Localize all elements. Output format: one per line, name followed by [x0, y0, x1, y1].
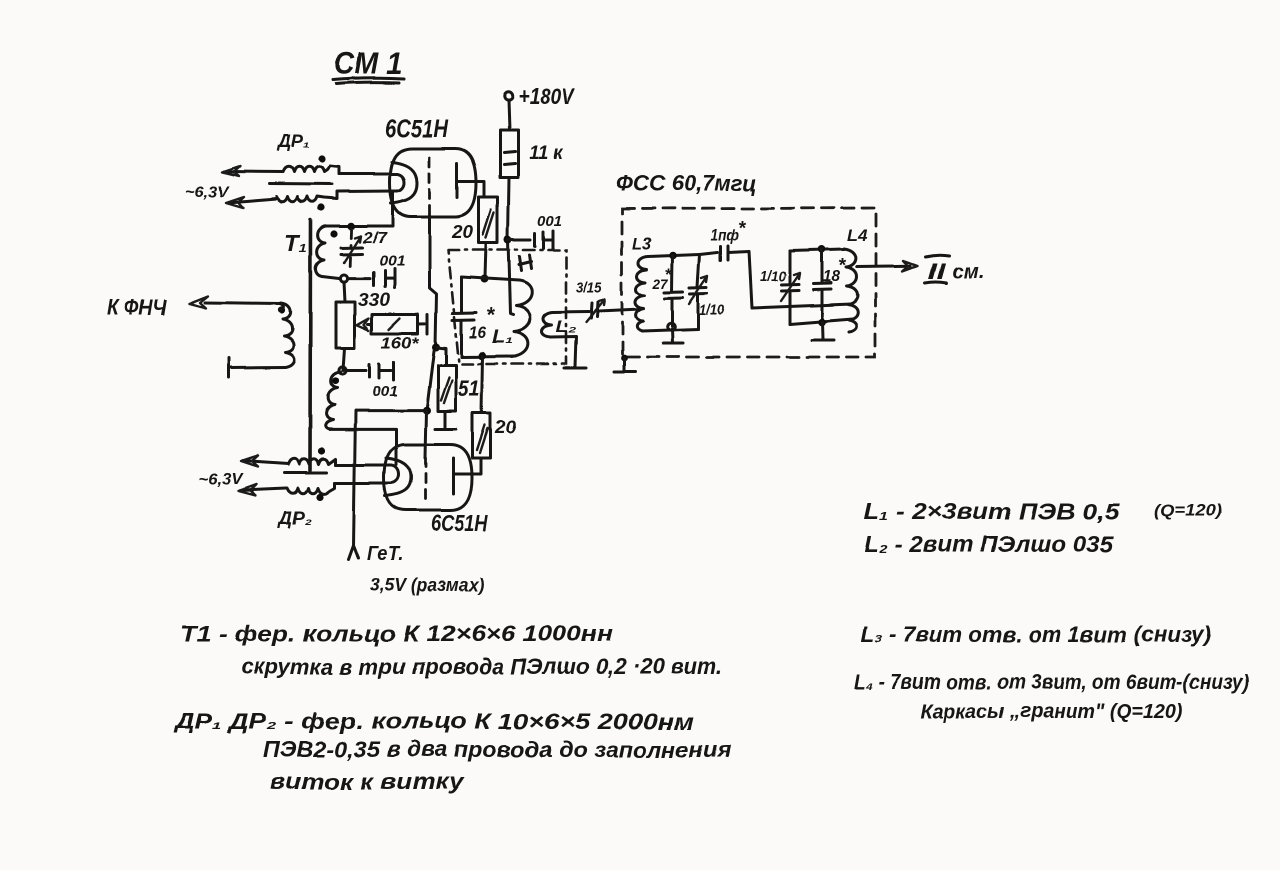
trimmer capacitor 1/10 (L4 tank) — [760, 251, 800, 324]
resistor 160* with arrow to 330 — [357, 314, 428, 352]
svg-text:11 к: 11 к — [529, 143, 564, 164]
svg-text:001: 001 — [379, 253, 405, 270]
wire L4 tank bottom — [790, 319, 853, 324]
svg-text:20: 20 — [451, 222, 473, 242]
tube V2 6C51N envelope — [384, 445, 488, 537]
ground at FSS box corner — [614, 355, 635, 372]
wire junction down to V2 grid — [427, 350, 434, 407]
choke DR1 polarity dot upper — [318, 155, 325, 162]
node junction (open) at T1 lower winding — [339, 367, 346, 374]
choke DR2 core — [284, 471, 327, 474]
svg-text:L₂: L₂ — [556, 317, 577, 336]
wire output winding bottom / terminal — [229, 358, 286, 377]
transformer T1 output winding dot — [278, 306, 285, 313]
svg-text:~6,3V: ~6,3V — [198, 471, 243, 488]
svg-text:16: 16 — [469, 323, 486, 342]
trimmer capacitor 1/10 (L3 tank) — [689, 254, 725, 329]
resistor 11k — [500, 130, 564, 177]
svg-text:ДР₂: ДР₂ — [277, 508, 312, 528]
wire V2 anode to R20b — [454, 458, 482, 474]
shield box (dash-dot) around L1 — [448, 250, 566, 364]
wire L3 tank bottom — [642, 329, 698, 331]
svg-text:L₂ - 2вит ПЭлшо 035: L₂ - 2вит ПЭлшо 035 — [864, 531, 1114, 557]
svg-text:+180V: +180V — [518, 83, 575, 109]
svg-text:L₁: L₁ — [492, 327, 513, 347]
transformer T1 upper winding — [315, 226, 326, 277]
filter FSS box (dashed) — [622, 208, 876, 357]
resistor 20 (bottom) — [473, 413, 517, 458]
tube V2 grid (dashed) — [424, 458, 427, 505]
svg-text:ДР₁ ДР₂ - фер. кольцо К 10×: ДР₁ ДР₂ - фер. кольцо К 10×6×5 2000нм — [173, 709, 694, 734]
wire L1 tank bottom — [462, 355, 517, 359]
capacitor 18* — [814, 250, 848, 322]
wire DR1 to V1 heater lower — [337, 190, 397, 194]
node junction B+/cap — [504, 236, 512, 244]
svg-text:~6,3V: ~6,3V — [185, 184, 229, 201]
svg-text:ДР₁: ДР₁ — [276, 131, 310, 151]
svg-text:1/10: 1/10 — [760, 268, 787, 285]
node grid junction — [432, 343, 440, 351]
tube V1 anode — [456, 163, 459, 197]
ground at L4 tank — [812, 322, 834, 340]
tube V1 grid (dashed) — [428, 157, 431, 215]
wire arrow to K FNC — [107, 295, 284, 320]
inductor L2 — [542, 312, 576, 337]
capacitor 0.01 (lower, at T1) — [346, 362, 398, 400]
wire V1 anode to R20a — [457, 181, 484, 197]
wire L3 tank top — [648, 254, 700, 256]
choke DR2 upper winding — [288, 459, 336, 465]
svg-text:1пф: 1пф — [711, 227, 739, 244]
svg-text:51: 51 — [458, 376, 480, 401]
svg-text:1/10: 1/10 — [699, 302, 725, 319]
wire V2 heater lower — [335, 482, 391, 485]
transformer T1 lower winding dot — [332, 377, 339, 384]
node junction L4 top — [818, 246, 826, 254]
svg-text:*: * — [738, 218, 747, 239]
transformer T1 core — [308, 220, 312, 470]
transformer T1 lower winding — [325, 372, 341, 429]
wire L2 top to 3/15 — [553, 310, 589, 314]
ground at 51 — [435, 411, 456, 429]
svg-text:*: * — [486, 305, 495, 327]
ground at L3 tank — [663, 329, 683, 343]
node junction cap27 — [669, 251, 677, 259]
resistor 330 — [336, 290, 390, 348]
capacitor 27* — [652, 255, 683, 326]
wire grid junction to 51 — [437, 347, 446, 365]
svg-text:виток к витку: виток к витку — [270, 769, 465, 794]
wire Get line horizontal — [356, 409, 426, 412]
wire L2 bottom to ground — [551, 337, 576, 368]
title CM1 — [333, 46, 404, 84]
wire heater arrow upper (bottom) — [241, 456, 288, 467]
svg-text:6С51Н: 6С51Н — [431, 510, 488, 536]
svg-text:001: 001 — [537, 213, 562, 230]
choke DR2 lower winding — [287, 483, 335, 494]
capacitor 0.01 at B+ — [508, 213, 562, 249]
tube V1 cathode/heater — [391, 162, 417, 203]
capacitor 0.01 (upper, at T1) — [348, 253, 405, 288]
svg-text:T₁: T₁ — [284, 230, 307, 257]
svg-text:L4: L4 — [847, 226, 868, 245]
svg-text:см.: см. — [952, 261, 984, 283]
tube V2 anode — [452, 458, 455, 494]
node junction L4 bottom — [818, 318, 826, 326]
svg-text:2/7: 2/7 — [362, 230, 388, 247]
svg-text:ФСС 60,7мгц: ФСС 60,7мгц — [615, 171, 757, 196]
svg-text:СМ 1: СМ 1 — [334, 46, 402, 81]
choke DR1 polarity dot lower — [317, 204, 324, 211]
capacitor 1pf* — [700, 218, 749, 260]
capacitor 16* — [453, 278, 496, 358]
node junction L1 bottom — [479, 352, 487, 360]
svg-text:330: 330 — [358, 290, 390, 310]
wire V2 grid pin — [425, 411, 426, 458]
trimmer capacitor 3/15 — [576, 279, 605, 322]
svg-text:L₃ - 7вит отв. от 1вит (сни: L₃ - 7вит отв. от 1вит (снизу) — [861, 622, 1211, 647]
resistor 51 — [438, 365, 480, 411]
node +180V terminal — [504, 83, 576, 109]
svg-text:20: 20 — [494, 417, 516, 437]
node junction at Get line — [423, 407, 431, 415]
trimmer capacitor 2/7 — [341, 229, 388, 272]
node junction T1 top / trimmer — [348, 222, 356, 230]
svg-text:скрутка в три провода ПЭлшо: скрутка в три провода ПЭлшо 0,2 ·20 вит. — [241, 654, 723, 679]
ground at L2 — [564, 367, 586, 370]
svg-text:6С51Н: 6С51Н — [385, 115, 449, 143]
node junction (open) L3 bottom — [667, 323, 675, 331]
transformer T1 output winding (to FNC) — [281, 303, 294, 367]
choke DR1 core — [269, 183, 332, 187]
wire Get vertical with arrow — [349, 411, 485, 595]
wire output arrow to II subband — [857, 261, 917, 272]
wire B+ terminal to 11k — [508, 100, 509, 130]
label II cm. — [924, 255, 984, 284]
svg-text:001: 001 — [372, 383, 398, 400]
choke DR2 polarity dot lower — [316, 493, 323, 500]
choke DR1 upper winding — [283, 166, 339, 174]
wire L1 tank top — [462, 278, 520, 282]
wire V2 heater upper — [336, 464, 391, 467]
choke DR1 lower winding — [276, 192, 337, 202]
svg-text:Каркасы „гранит" (Q=120): Каркасы „гранит" (Q=120) — [920, 701, 1183, 723]
wire R20a to L1 top — [485, 243, 486, 278]
trimmer mark H inside shield — [519, 255, 532, 271]
resistor 20 (top) — [451, 197, 498, 243]
svg-text:Т1 - фер. кольцо К 12×6×6: Т1 - фер. кольцо К 12×6×6 1000нн — [180, 621, 613, 646]
wire T1 upper winding bottom to junction — [322, 277, 340, 279]
svg-text:L₄ - 7вит отв. от 3вит, от 6: L₄ - 7вит отв. от 3вит, от 6вит-(снизу) — [854, 671, 1249, 694]
svg-text:L3: L3 — [632, 234, 652, 253]
wire 11k bottom down to L1 centre tap — [508, 177, 513, 315]
transformer T1 upper winding dot — [330, 230, 337, 237]
svg-text:II: II — [927, 259, 946, 284]
wire DR1 to V1 heater upper — [339, 173, 397, 176]
svg-text:3,5V (размах): 3,5V (размах) — [370, 575, 484, 595]
node junction L1 top — [481, 276, 489, 284]
svg-text:К ФНЧ: К ФНЧ — [107, 295, 166, 320]
wire heater arrow upper ~6,3V — [222, 166, 283, 176]
inductor L3 — [632, 234, 652, 331]
wire L4 tank top — [790, 250, 844, 252]
wire L1 bottom to R20b — [482, 357, 483, 413]
wire T1 lower winding to V2 cathode — [329, 429, 396, 464]
choke DR2 polarity dot upper — [318, 447, 325, 454]
svg-text:(Q=120): (Q=120) — [1154, 501, 1222, 520]
wire 1pf to L4 tap — [749, 251, 852, 308]
svg-text:3/15: 3/15 — [576, 279, 603, 296]
tube V2 cathode/heater — [385, 458, 411, 496]
wire V1 grid line down — [430, 215, 437, 346]
svg-text:ПЭВ2-0,35 в два провода до з: ПЭВ2-0,35 в два провода до заполнения — [263, 737, 731, 762]
inductor L1 — [492, 281, 532, 357]
svg-text:L₁ - 2×3вит ПЭВ 0,5: L₁ - 2×3вит ПЭВ 0,5 — [863, 498, 1120, 524]
wire heater arrow lower (bottom) — [238, 484, 286, 495]
wire T1 upper winding to V1 cathode — [326, 192, 393, 227]
inductor L4 — [844, 226, 868, 332]
tube V1 6C51N envelope — [385, 115, 476, 217]
svg-text:ГеТ.: ГеТ. — [367, 543, 403, 565]
svg-text:160*: 160* — [381, 333, 420, 352]
node junction (open) T1 bottom — [340, 275, 347, 282]
wire 3/15 to L3 — [599, 309, 640, 311]
wire heater arrow lower ~6,3V — [226, 197, 276, 208]
wire junction to R330 — [344, 282, 345, 302]
wire R330 to lower junction — [344, 348, 346, 371]
